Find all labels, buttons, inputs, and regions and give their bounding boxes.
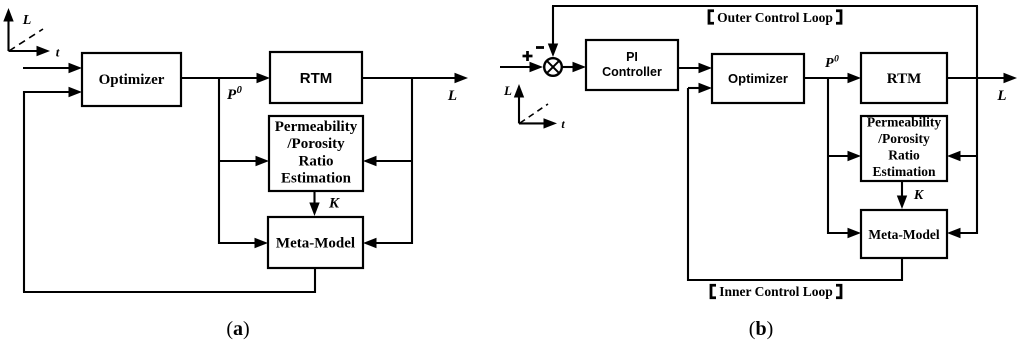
svg-text:L: L: [996, 88, 1006, 104]
svg-text:Ratio: Ratio: [888, 148, 920, 163]
svg-text:/Porosity: /Porosity: [877, 131, 930, 146]
svg-text:Estimation: Estimation: [872, 164, 935, 179]
svg-text:Outer Control Loop: Outer Control Loop: [717, 10, 833, 25]
svg-text:L: L: [22, 13, 32, 28]
svg-text:Permeability: Permeability: [275, 119, 358, 135]
svg-text:(b): (b): [749, 318, 773, 340]
svg-text:Meta-Model: Meta-Model: [868, 227, 939, 242]
svg-text:Optimizer: Optimizer: [99, 72, 165, 88]
svg-text:K: K: [328, 196, 340, 212]
svg-text:Estimation: Estimation: [281, 171, 352, 187]
svg-text:L: L: [503, 83, 512, 98]
svg-text:Optimizer: Optimizer: [728, 71, 788, 86]
svg-text:RTM: RTM: [887, 71, 921, 87]
svg-text:Ratio: Ratio: [299, 153, 334, 169]
svg-text:/Porosity: /Porosity: [286, 136, 345, 152]
svg-text:RTM: RTM: [300, 70, 333, 87]
svg-text:L: L: [447, 88, 457, 104]
svg-text:Controller: Controller: [602, 65, 662, 79]
svg-text:Meta-Model: Meta-Model: [276, 236, 355, 252]
svg-text:K: K: [913, 188, 925, 203]
svg-text:Inner Control Loop: Inner Control Loop: [719, 284, 833, 299]
svg-text:Permeability: Permeability: [867, 115, 941, 130]
svg-text:(a): (a): [226, 318, 249, 340]
svg-text:t: t: [56, 45, 60, 60]
svg-text:PI: PI: [626, 50, 638, 64]
